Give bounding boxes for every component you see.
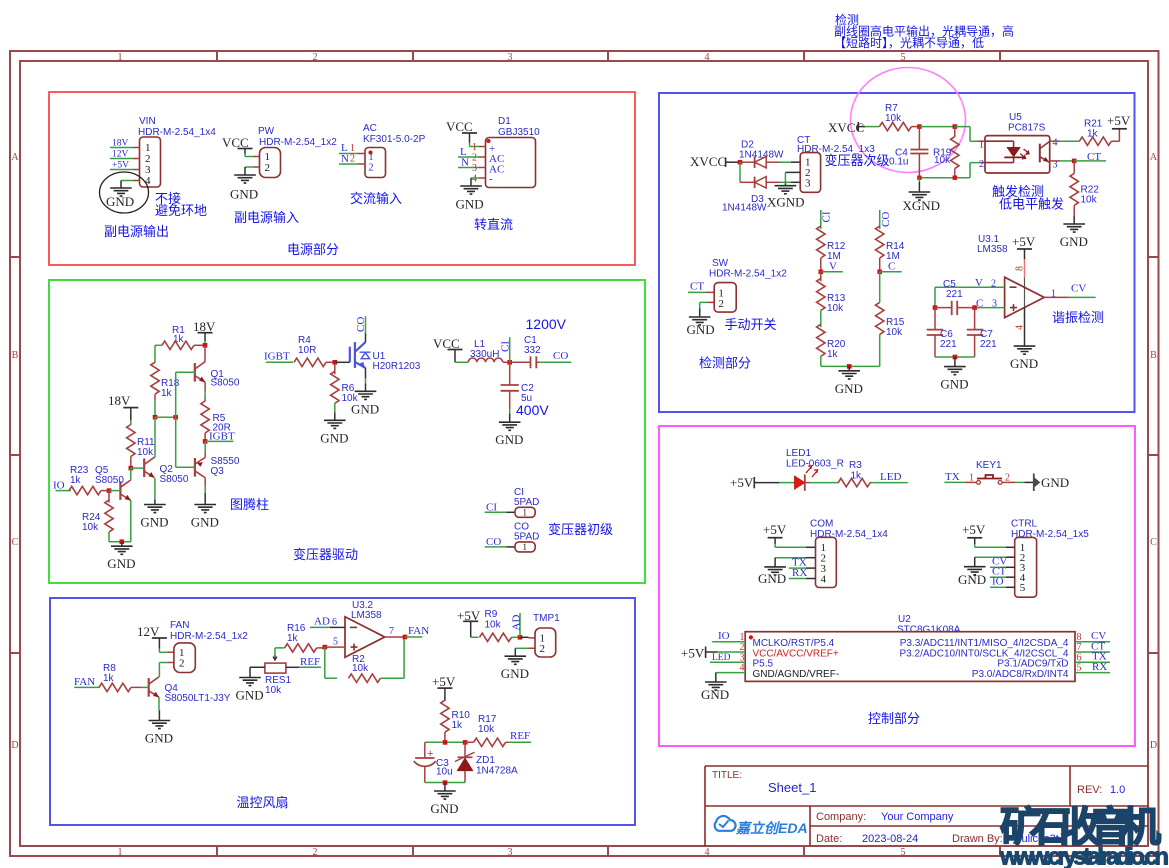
- svg-text:0.1u: 0.1u: [889, 157, 908, 168]
- svg-text:5: 5: [901, 52, 906, 63]
- svg-text:Date:: Date:: [816, 833, 842, 845]
- svg-text:2: 2: [313, 52, 318, 63]
- svg-text:10k: 10k: [1081, 195, 1098, 206]
- svg-text:4: 4: [472, 174, 477, 185]
- svg-text:332: 332: [524, 345, 541, 356]
- svg-text:3: 3: [805, 177, 811, 189]
- svg-text:转直流: 转直流: [474, 217, 513, 232]
- svg-text:N: N: [461, 157, 469, 169]
- svg-text:低电平触发: 低电平触发: [999, 197, 1064, 212]
- svg-text:图腾柱: 图腾柱: [230, 497, 269, 512]
- svg-text:CV: CV: [1071, 283, 1086, 295]
- svg-text:GND: GND: [701, 687, 729, 702]
- svg-text:GND/AGND/VREF-: GND/AGND/VREF-: [753, 669, 840, 680]
- svg-text:-: -: [489, 173, 493, 185]
- svg-text:R9: R9: [485, 609, 498, 620]
- svg-text:检测部分: 检测部分: [699, 356, 751, 371]
- svg-text:C: C: [12, 537, 19, 548]
- svg-text:5: 5: [333, 637, 338, 648]
- svg-text:变压器初级: 变压器初级: [548, 522, 613, 537]
- svg-text:1N4728A: 1N4728A: [476, 766, 518, 777]
- svg-text:12V: 12V: [112, 150, 129, 160]
- svg-text:ZD1: ZD1: [476, 755, 495, 766]
- svg-text:10u: 10u: [436, 767, 453, 778]
- svg-text:AD: AD: [314, 616, 330, 628]
- svg-text:1.0: 1.0: [1110, 784, 1125, 796]
- svg-text:2023-08-24: 2023-08-24: [862, 833, 918, 845]
- svg-text:4: 4: [1053, 138, 1058, 149]
- svg-text:交流输入: 交流输入: [350, 191, 402, 206]
- svg-text:U5: U5: [1009, 112, 1022, 123]
- svg-text:STC8G1K08A: STC8G1K08A: [897, 624, 961, 635]
- svg-text:R3: R3: [849, 460, 862, 471]
- svg-text:KF301-5.0-2P: KF301-5.0-2P: [363, 134, 426, 145]
- svg-text:GBJ3510: GBJ3510: [498, 127, 540, 138]
- svg-text:XVCC: XVCC: [690, 154, 726, 169]
- svg-text:1: 1: [1051, 289, 1056, 300]
- svg-text:5PAD: 5PAD: [514, 497, 539, 508]
- svg-text:+5V: +5V: [112, 161, 129, 171]
- svg-text:2: 2: [472, 153, 477, 164]
- svg-text:1: 1: [118, 52, 123, 63]
- svg-text:TITLE:: TITLE:: [712, 770, 742, 781]
- svg-text:LED1: LED1: [786, 448, 811, 459]
- svg-text:B: B: [1150, 350, 1157, 361]
- svg-text:10k: 10k: [934, 155, 951, 166]
- svg-text:CTRL: CTRL: [1011, 519, 1038, 530]
- svg-text:IGBT: IGBT: [264, 351, 290, 363]
- svg-text:3: 3: [472, 163, 477, 174]
- svg-text:【短路时】，光耦不导通，低: 【短路时】，光耦不导通，低: [834, 35, 984, 50]
- svg-text:1k: 1k: [287, 633, 299, 644]
- svg-text:GND: GND: [106, 194, 134, 209]
- svg-text:手动开关: 手动开关: [725, 317, 777, 332]
- svg-text:1: 1: [472, 142, 477, 153]
- svg-text:CO: CO: [880, 212, 892, 227]
- svg-text:VIN: VIN: [139, 116, 156, 127]
- svg-text:S8050: S8050: [160, 474, 189, 485]
- svg-text:REV:: REV:: [1077, 784, 1102, 796]
- svg-text:1N4148W: 1N4148W: [722, 203, 767, 214]
- svg-text:A: A: [11, 152, 19, 163]
- svg-text:变压器次级: 变压器次级: [825, 153, 890, 168]
- svg-text:LED-0603_R: LED-0603_R: [786, 459, 844, 470]
- svg-text:RX: RX: [792, 567, 807, 579]
- svg-text:FAN: FAN: [170, 620, 189, 631]
- svg-text:+5V: +5V: [681, 646, 705, 661]
- svg-text:18V: 18V: [193, 319, 216, 334]
- svg-text:1: 1: [523, 542, 528, 552]
- svg-text:4: 4: [145, 175, 151, 187]
- svg-text:7: 7: [389, 626, 394, 637]
- svg-text:10k: 10k: [82, 522, 99, 533]
- svg-text:AD: AD: [510, 615, 522, 631]
- svg-text:COM: COM: [810, 519, 833, 530]
- svg-text:10k: 10k: [827, 303, 844, 314]
- svg-text:IO: IO: [53, 480, 65, 492]
- svg-text:www.crystalradio.cn: www.crystalradio.cn: [999, 844, 1169, 868]
- svg-text:Your Company: Your Company: [881, 811, 954, 823]
- svg-text:+5V: +5V: [730, 475, 754, 490]
- svg-text:P3.0/ADC8/RxD/INT4: P3.0/ADC8/RxD/INT4: [972, 669, 1069, 680]
- svg-text:HDR-M-2.54_1x5: HDR-M-2.54_1x5: [1011, 529, 1089, 540]
- svg-text:8: 8: [1015, 266, 1026, 271]
- svg-text:1k: 1k: [161, 388, 173, 399]
- svg-text:1k: 1k: [452, 720, 464, 731]
- svg-text:12V: 12V: [137, 624, 160, 639]
- svg-text:变压器驱动: 变压器驱动: [293, 547, 358, 562]
- svg-text:HDR-M-2.54_1x2: HDR-M-2.54_1x2: [170, 631, 248, 642]
- svg-text:2: 2: [350, 154, 355, 165]
- svg-text:D1: D1: [498, 116, 511, 127]
- svg-text:PW: PW: [258, 126, 275, 137]
- svg-text:Sheet_1: Sheet_1: [768, 780, 816, 795]
- svg-text:CO: CO: [355, 317, 367, 332]
- svg-text:10k: 10k: [886, 327, 903, 338]
- svg-text:TMP1: TMP1: [533, 613, 560, 624]
- svg-text:3: 3: [508, 52, 513, 63]
- svg-text:10k: 10k: [342, 393, 359, 404]
- svg-text:1k: 1k: [70, 475, 82, 486]
- svg-text:Q3: Q3: [211, 466, 225, 477]
- svg-text:H20R1203: H20R1203: [373, 361, 421, 372]
- svg-text:IO: IO: [992, 576, 1004, 588]
- svg-text:1: 1: [979, 140, 984, 151]
- svg-text:CI: CI: [820, 211, 832, 222]
- svg-text:GND: GND: [1041, 475, 1069, 490]
- svg-text:副电源输出: 副电源输出: [104, 224, 169, 239]
- svg-text:GND: GND: [758, 571, 786, 586]
- svg-text:HDR-M-2.54_1x4: HDR-M-2.54_1x4: [810, 529, 888, 540]
- svg-text:+5V: +5V: [763, 522, 787, 537]
- svg-text:1k: 1k: [103, 673, 115, 684]
- svg-text:CI: CI: [500, 341, 512, 352]
- svg-text:IO: IO: [718, 630, 730, 642]
- svg-text:10k: 10k: [485, 620, 502, 631]
- svg-text:REF: REF: [300, 656, 320, 668]
- svg-text:谐振检测: 谐振检测: [1052, 310, 1104, 325]
- svg-text:S8050: S8050: [211, 378, 240, 389]
- svg-text:400V: 400V: [516, 402, 549, 418]
- svg-text:18V: 18V: [108, 393, 131, 408]
- svg-text:10k: 10k: [265, 685, 282, 696]
- svg-text:2: 2: [718, 298, 724, 310]
- svg-text:2: 2: [979, 159, 984, 170]
- svg-text:10k: 10k: [352, 663, 369, 674]
- svg-text:REF: REF: [510, 730, 530, 742]
- svg-text:10k: 10k: [478, 724, 495, 735]
- svg-text:XGND: XGND: [767, 195, 805, 210]
- svg-text:2: 2: [313, 847, 318, 858]
- svg-text:D: D: [1150, 740, 1157, 751]
- svg-text:PC817S: PC817S: [1008, 123, 1046, 134]
- svg-text:4: 4: [821, 574, 827, 586]
- svg-text:SW: SW: [712, 258, 729, 269]
- svg-text:LM358: LM358: [977, 244, 1008, 255]
- svg-text:TX: TX: [945, 471, 960, 483]
- svg-text:B: B: [12, 350, 19, 361]
- svg-text:A: A: [1150, 152, 1158, 163]
- svg-text:2: 2: [369, 163, 374, 174]
- svg-text:GND: GND: [958, 572, 986, 587]
- svg-text:FAN: FAN: [74, 676, 95, 688]
- svg-text:1: 1: [969, 473, 974, 484]
- svg-text:HDR-M-2.54_1x2: HDR-M-2.54_1x2: [709, 269, 787, 280]
- svg-text:3: 3: [508, 847, 513, 858]
- svg-text:S8050: S8050: [95, 475, 124, 486]
- svg-text:CT: CT: [690, 281, 704, 293]
- svg-text:4: 4: [705, 847, 710, 858]
- svg-text:KEY1: KEY1: [976, 460, 1002, 471]
- svg-text:C: C: [888, 261, 895, 273]
- svg-text:FAN: FAN: [408, 625, 429, 637]
- svg-text:5PAD: 5PAD: [514, 532, 539, 543]
- svg-text:V: V: [829, 261, 837, 273]
- svg-text:5: 5: [1020, 582, 1026, 594]
- svg-text:S8050LT1-J3Y: S8050LT1-J3Y: [165, 693, 231, 704]
- svg-text:LM358: LM358: [351, 610, 382, 621]
- svg-text:6: 6: [332, 617, 337, 628]
- svg-text:温控风扇: 温控风扇: [237, 795, 289, 810]
- svg-text:221: 221: [946, 289, 963, 300]
- svg-text:HDR-M-2.54_1x2: HDR-M-2.54_1x2: [259, 137, 337, 148]
- svg-text:1: 1: [523, 508, 528, 518]
- svg-text:+: +: [427, 748, 433, 760]
- svg-text:10k: 10k: [137, 447, 154, 458]
- svg-text:221: 221: [940, 339, 957, 350]
- svg-text:18V: 18V: [112, 139, 129, 149]
- svg-text:控制部分: 控制部分: [868, 711, 920, 726]
- svg-text:+5V: +5V: [432, 674, 456, 689]
- svg-text:221: 221: [980, 339, 997, 350]
- svg-text:1: 1: [350, 143, 355, 154]
- svg-text:副电源输入: 副电源输入: [234, 210, 299, 225]
- svg-text:GND: GND: [687, 322, 715, 337]
- svg-text:GND: GND: [456, 197, 484, 212]
- svg-text:N: N: [341, 153, 349, 165]
- svg-text:LED: LED: [712, 653, 731, 663]
- svg-text:+5V: +5V: [962, 522, 986, 537]
- svg-text:AC: AC: [363, 123, 377, 134]
- svg-text:C: C: [1150, 537, 1157, 548]
- svg-text:LED: LED: [880, 471, 901, 483]
- svg-text:1200V: 1200V: [526, 316, 567, 332]
- svg-text:CO: CO: [553, 350, 568, 362]
- svg-text:电源部分: 电源部分: [287, 242, 339, 257]
- svg-text:2: 2: [179, 658, 185, 670]
- svg-text:避免环地: 避免环地: [155, 203, 207, 218]
- svg-text:D: D: [11, 740, 18, 751]
- svg-text:Company:: Company:: [816, 811, 866, 823]
- svg-text:5: 5: [901, 847, 906, 858]
- svg-text:1: 1: [118, 847, 123, 858]
- svg-text:4: 4: [705, 52, 710, 63]
- svg-text:1k: 1k: [827, 349, 839, 360]
- svg-text:GND: GND: [230, 187, 258, 202]
- svg-text:+5V: +5V: [1012, 234, 1036, 249]
- svg-text:10R: 10R: [298, 345, 316, 356]
- svg-text:嘉立创EDA: 嘉立创EDA: [735, 820, 808, 836]
- svg-text:1: 1: [369, 152, 374, 163]
- svg-text:+5V: +5V: [1107, 113, 1131, 128]
- svg-text:2: 2: [540, 643, 546, 655]
- svg-text:RX: RX: [1092, 661, 1107, 673]
- svg-text:2: 2: [265, 162, 271, 174]
- svg-text:VCC: VCC: [446, 119, 473, 134]
- svg-text:XGND: XGND: [903, 198, 941, 213]
- svg-text:Drawn By:: Drawn By:: [952, 833, 1003, 845]
